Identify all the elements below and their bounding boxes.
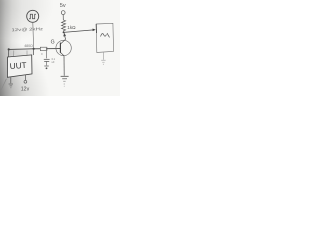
- transistor Q1: [56, 33, 71, 56]
- arrow into scope: [93, 29, 96, 32]
- scope box left edge darker: [95, 24, 97, 33]
- resistor R2 series box: [40, 47, 47, 50]
- wire main base wire: [9, 48, 61, 51]
- svg-text:480Ω: 480Ω: [24, 44, 33, 48]
- wire UUT pin 1: [8, 49, 10, 57]
- svg-text:R: R: [41, 53, 43, 56]
- terminal 12v: [24, 80, 27, 83]
- node collector junction: [63, 31, 65, 33]
- wire UUT pin 2: [13, 51, 15, 57]
- capacitor C1: [44, 59, 50, 61]
- svg-text:uF: uF: [52, 61, 55, 64]
- wire UUT 12v lead: [24, 75, 26, 81]
- node junction generator/base wire: [33, 48, 35, 50]
- svg-text:UUT: UUT: [9, 61, 26, 71]
- ground under scope: [101, 60, 105, 65]
- ground under UUT: [9, 84, 13, 88]
- wire UUT pin 3: [26, 51, 28, 56]
- ground under emitter: [61, 76, 69, 86]
- svg-text:G: G: [51, 39, 55, 45]
- wire generator to node: [32, 22, 35, 48]
- node left junction: [8, 48, 10, 50]
- signal generator V1: [27, 10, 39, 22]
- scope box: [96, 23, 113, 52]
- wire UUT pin 4: [33, 49, 35, 55]
- wire UUT bottom-left lead: [10, 77, 12, 83]
- svg-text:12v: 12v: [21, 87, 30, 93]
- scope label squiggle: [101, 33, 110, 37]
- wire cap branch: [46, 51, 48, 59]
- node cap junction: [46, 48, 47, 49]
- ground under capacitor: [44, 66, 49, 69]
- terminal 5V: [61, 11, 65, 15]
- wire collector wire to scope: [64, 30, 94, 33]
- svg-text:5v: 5v: [60, 3, 66, 9]
- wire scope ground stub: [102, 53, 104, 60]
- wire emitter down: [63, 56, 65, 76]
- UUT box: [7, 55, 32, 77]
- resistor R1 1k: [62, 20, 66, 31]
- svg-text:1kΩ: 1kΩ: [67, 25, 76, 30]
- wire cap to ground: [46, 62, 48, 66]
- wire 5V to resistor: [62, 15, 64, 20]
